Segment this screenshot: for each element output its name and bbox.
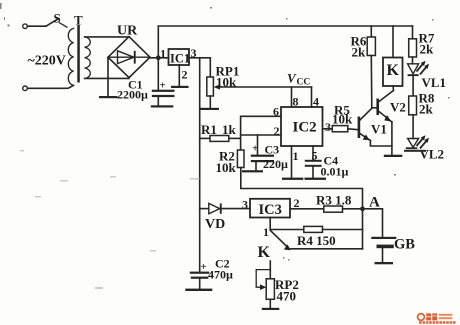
svg-text:K: K [258,244,271,261]
node A [360,195,380,212]
resistor R7 [409,26,435,64]
terminal bottom-left [23,86,28,91]
svg-text:2k: 2k [420,42,435,57]
wire secondary bottom to bridge [85,77,129,79]
svg-text:V2: V2 [390,100,406,115]
wire top rail [158,26,412,57]
ground (GB) [375,262,394,264]
svg-text:GB: GB [394,237,415,253]
ground (V1 V2 emitters) [384,155,403,157]
transformer T primary winding [68,28,73,85]
node junction dot [156,55,161,60]
resistor R1 [200,122,241,141]
svg-text:CC: CC [297,78,311,88]
svg-text:IC2: IC2 [293,120,317,136]
svg-text:VL2: VL2 [420,147,445,162]
capacitor C3 [251,135,288,171]
capacitor C4 [305,146,349,179]
resistor R5 [323,103,358,132]
potentiometer RP1 [207,58,240,108]
svg-text:V: V [287,71,297,86]
relay K [383,26,403,91]
svg-text:1: 1 [160,47,166,61]
ground (C4) [305,178,327,180]
svg-text:VL1: VL1 [422,75,447,90]
svg-text:+: + [160,80,166,92]
svg-text:10k: 10k [216,160,237,175]
svg-text:+: + [252,143,258,155]
wire bridge plus to IC1 [150,57,169,59]
watermark logo [418,313,456,323]
svg-text:470µ: 470µ [208,268,233,282]
ground (RP1) [201,108,220,110]
svg-text:UR: UR [117,24,138,39]
label ~220V [28,54,66,69]
pin 2 stub IC1 [179,65,187,86]
LED VL2 [406,135,444,161]
transformer core [77,25,80,83]
svg-text:8: 8 [293,95,299,109]
ground (C2) [185,289,212,291]
resistor R6 [351,26,376,108]
wire switch contact to node A [291,248,363,250]
ground (IC1 pin2) [171,86,189,88]
svg-text:2200µ: 2200µ [117,88,148,102]
ground (C3) [242,170,263,172]
svg-text:~220V: ~220V [28,54,66,69]
scan speckles [0,3,450,261]
capacitor C2 [190,257,233,289]
ground (IC2 pin1) [282,178,303,180]
wire bridge minus down [107,57,109,96]
wire [28,25,46,27]
svg-text:IC3: IC3 [259,202,282,218]
resistor R2 [216,149,245,176]
potentiometer RP2 [256,261,299,308]
wire pin8 drop [291,87,293,107]
svg-text:10k: 10k [332,112,353,127]
switch K [258,231,291,262]
svg-text:V1: V1 [371,122,387,137]
svg-text:470: 470 [277,289,297,304]
svg-text:R3 1.8: R3 1.8 [316,193,352,208]
svg-text:R4 150: R4 150 [297,233,336,248]
svg-text:IC1: IC1 [170,52,190,66]
wire left rail vertical [199,58,201,272]
ground (RP2) [262,308,280,310]
svg-text:VD: VD [205,217,225,232]
svg-text:S: S [54,11,61,26]
svg-text:+: + [201,261,207,273]
wire IC1 out [189,57,210,59]
label VCC [287,71,310,88]
svg-text:1: 1 [293,149,299,163]
resistor R3 [290,193,363,213]
svg-text:2: 2 [274,124,280,138]
svg-text:T: T [74,13,83,28]
svg-text:4: 4 [313,95,319,109]
switch S [46,11,67,28]
svg-text:C3: C3 [265,143,280,157]
ground (C1) [151,105,174,107]
wire [28,85,74,88]
wire IC3 pin1 [270,218,304,230]
svg-text:2k: 2k [419,102,434,117]
op-amp IC2 [273,95,331,164]
svg-text:3: 3 [242,198,248,212]
diode VD [200,203,250,232]
resistor R4 [297,226,363,248]
terminal top-left [23,24,28,29]
ground (bridge) [99,96,118,98]
wire secondary top to bridge [85,36,129,38]
LED VL1 [408,61,446,96]
svg-text:R1: R1 [201,122,217,137]
wire pin4 drop [311,87,313,107]
wire RP1 wiper to VCC bracket [219,86,312,88]
transistor V2 [372,91,406,155]
svg-text:2: 2 [294,196,300,210]
svg-text:1: 1 [263,225,269,239]
transformer T secondary winding [74,13,90,79]
bridge rectifier UR [108,24,150,78]
capacitor C1 [117,58,175,106]
ground (VL2) [404,150,426,152]
wire ground rail to node A [241,168,363,249]
transistor V1 [358,108,392,146]
svg-text:1k: 1k [222,122,237,137]
resistor R8 [409,91,435,139]
svg-text:2: 2 [182,68,188,82]
svg-text:2k: 2k [352,45,367,60]
charge controller IC3 [242,196,300,239]
svg-text:0.01µ: 0.01µ [321,165,349,179]
svg-text:3: 3 [325,120,331,134]
svg-text:K: K [387,62,400,79]
wire pin1 down [291,146,293,178]
svg-text:220µ: 220µ [263,157,288,171]
voltage regulator IC1 [160,46,197,66]
wire pin6 [241,116,281,150]
battery GB [363,209,416,262]
wire pin2 [241,134,281,136]
